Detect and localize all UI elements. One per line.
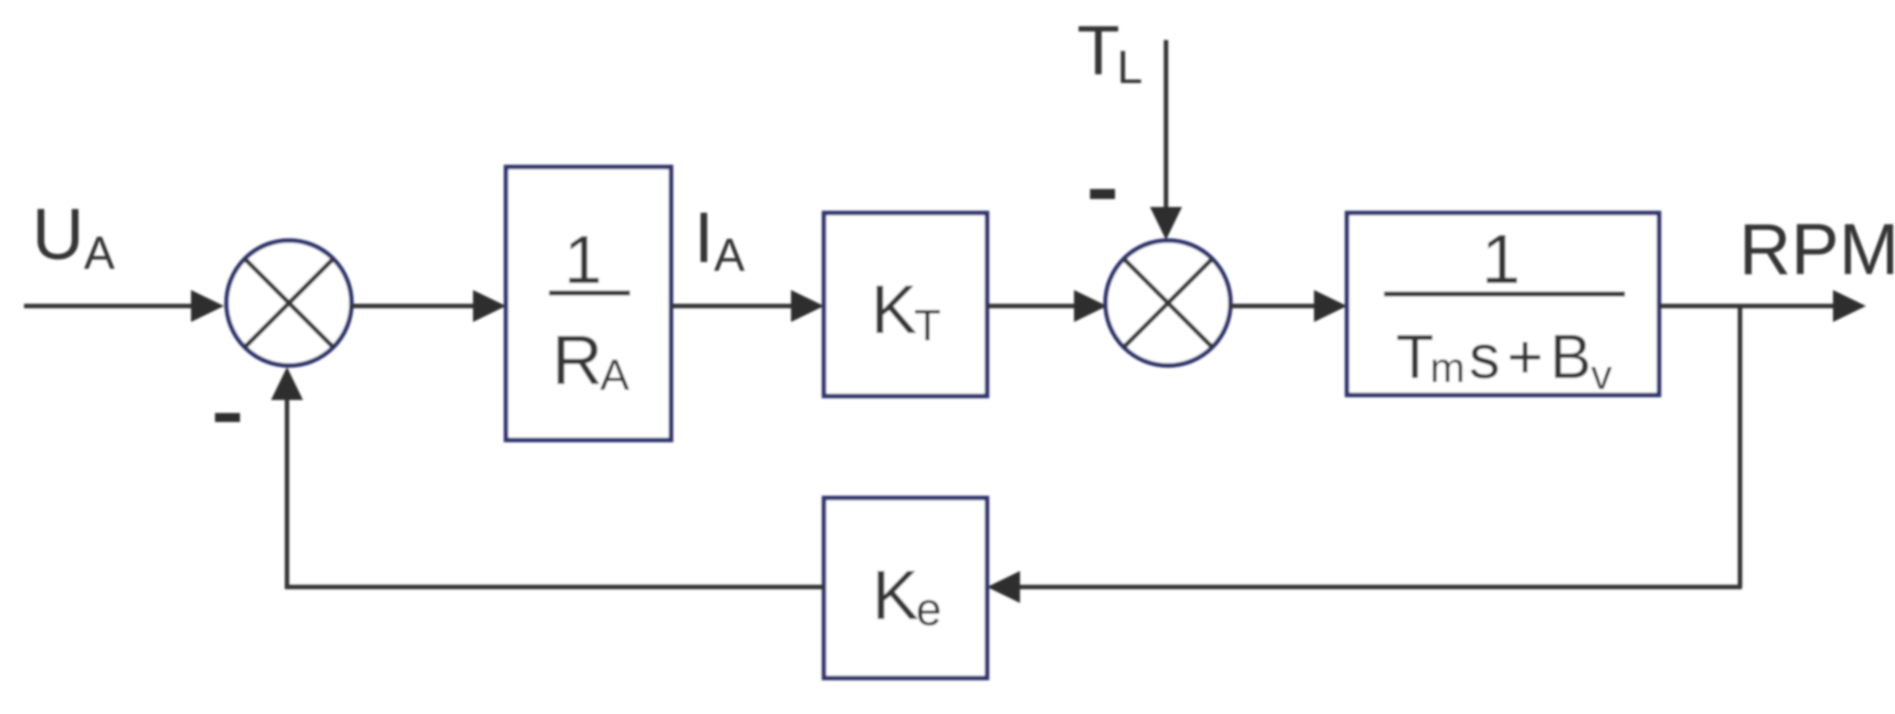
svg-text:L: L xyxy=(1117,41,1143,93)
svg-text:T: T xyxy=(1396,323,1434,392)
block G2 KT xyxy=(824,213,987,396)
svg-text:T: T xyxy=(1077,11,1120,89)
wire summing junction 2 to block 1/(Tms+Bv) xyxy=(1229,304,1317,309)
arrowhead into summing junction 2 xyxy=(1074,290,1107,322)
wire feedback branch down from output node xyxy=(1738,306,1743,587)
svg-text:A: A xyxy=(84,227,115,279)
svg-text:e: e xyxy=(916,583,942,635)
svg-text:1: 1 xyxy=(564,222,602,298)
svg-text:RPM: RPM xyxy=(1739,210,1895,290)
summing junction S2 xyxy=(1106,241,1231,366)
wire feedback left horizontal from block Ke xyxy=(285,585,824,590)
minus sign at summing junction S1 xyxy=(215,413,240,422)
svg-text:K: K xyxy=(871,271,917,348)
wire block KT to summing junction 2 xyxy=(987,304,1077,309)
arrowhead into block 1/RA xyxy=(473,290,506,322)
wire block 1/RA to block KT xyxy=(671,304,794,309)
arrowhead feedback into summing junction 1 xyxy=(271,367,303,400)
svg-text:U: U xyxy=(32,195,84,275)
wire feedback right horizontal into block Ke xyxy=(1017,585,1742,590)
svg-text:I: I xyxy=(694,199,714,278)
wire summing junction 1 to block 1/RA xyxy=(350,304,476,309)
svg-text:K: K xyxy=(872,556,919,634)
block G1 1/RA xyxy=(506,167,671,440)
node UA input label xyxy=(32,195,115,279)
svg-text:s: s xyxy=(1469,323,1500,392)
wire feedback up into summing junction 1 xyxy=(285,396,290,589)
svg-text:m: m xyxy=(1430,344,1465,391)
svg-text:v: v xyxy=(1591,351,1612,398)
svg-text:B: B xyxy=(1550,323,1591,392)
node TL load torque label xyxy=(1077,11,1143,93)
svg-text:A: A xyxy=(600,351,630,400)
arrowhead into block 1/(Tms+Bv) xyxy=(1314,290,1347,322)
svg-text:A: A xyxy=(714,229,745,281)
arrowhead into summing junction 1 xyxy=(191,290,224,322)
minus sign at summing junction S2 xyxy=(1090,189,1115,199)
svg-text:R: R xyxy=(552,321,603,399)
summing junction S1 xyxy=(227,241,352,366)
wire input UA to summing junction 1 xyxy=(24,304,194,309)
svg-text:1: 1 xyxy=(1482,220,1521,298)
arrowhead TL into summing junction 2 xyxy=(1150,207,1182,240)
svg-text:+: + xyxy=(1507,323,1543,392)
svg-text:T: T xyxy=(914,301,941,350)
arrowhead into block Ke xyxy=(987,571,1020,603)
wire block 1/(Tms+Bv) to output RPM xyxy=(1659,304,1836,309)
block H1 Ke xyxy=(824,498,987,678)
arrowhead into block KT xyxy=(791,290,824,322)
block G3 1/(Tms+Bv) xyxy=(1347,213,1659,398)
arrowhead output RPM xyxy=(1833,290,1866,322)
node IA label xyxy=(694,199,745,281)
wire TL down into summing junction 2 xyxy=(1164,40,1169,212)
